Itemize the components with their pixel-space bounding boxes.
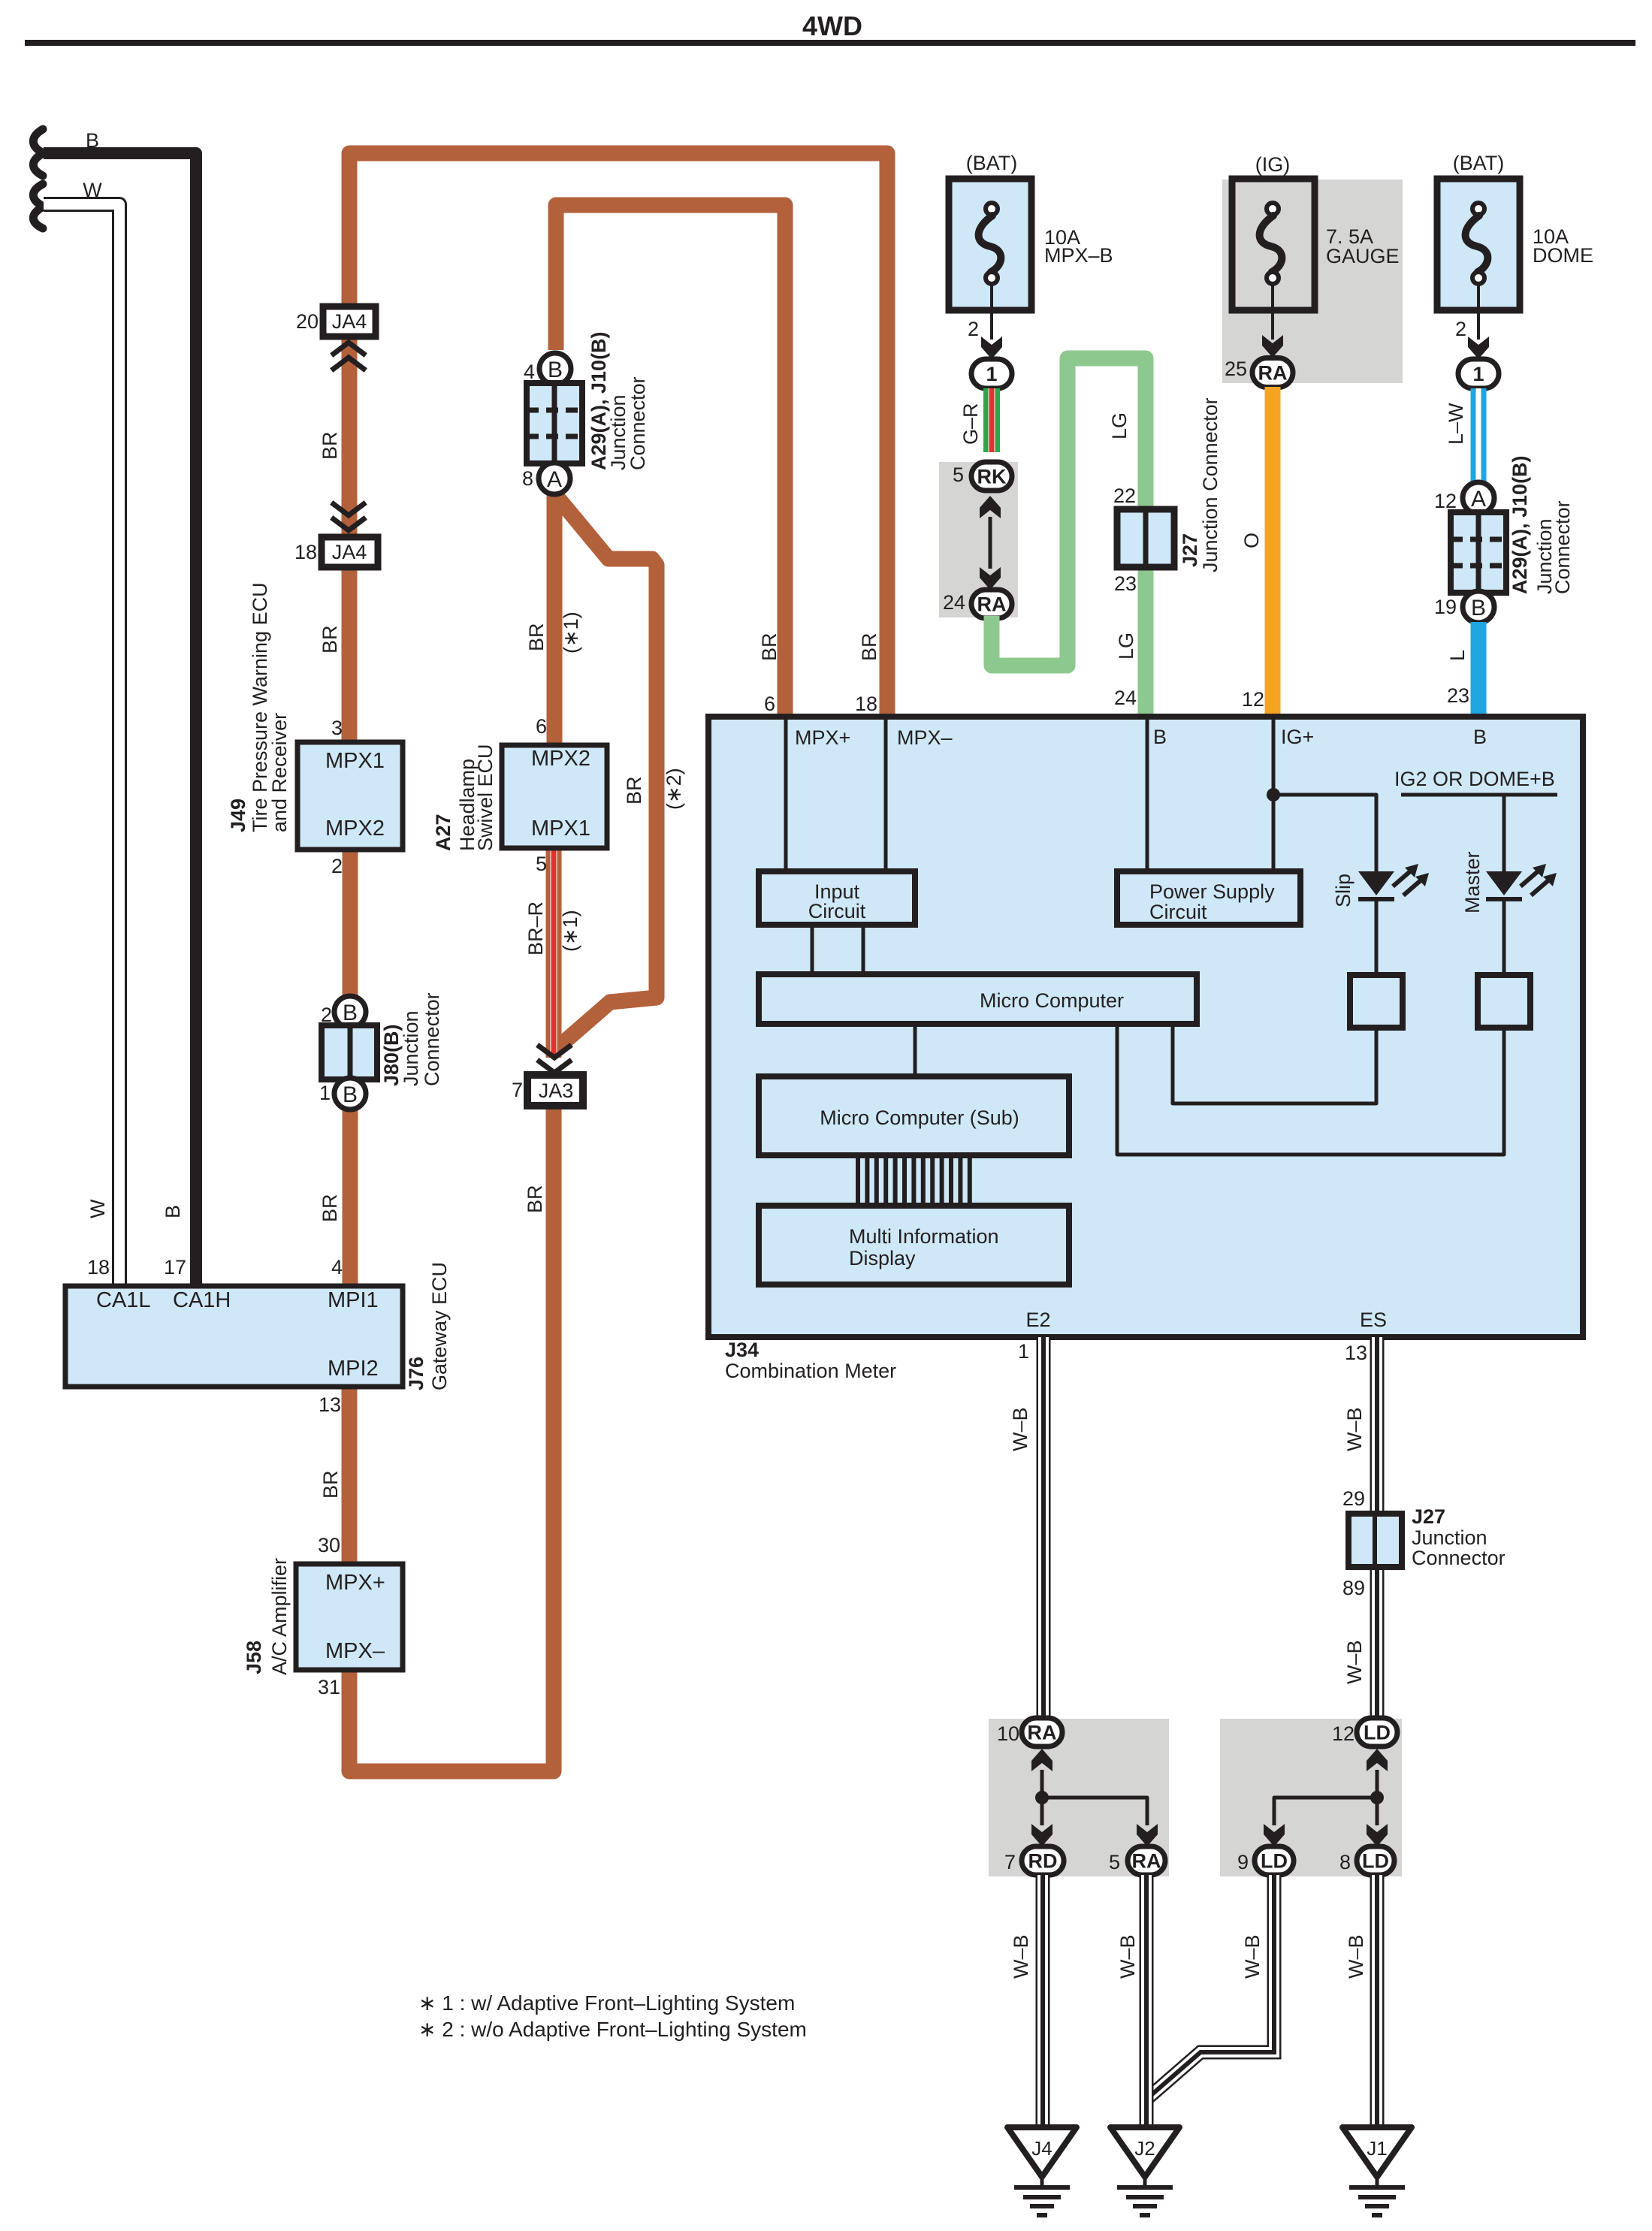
wire B (black): [44, 153, 196, 1286]
svg-text:30: 30: [318, 1534, 340, 1556]
junction connector J80(B) pin 2 circle: [334, 996, 366, 1028]
wire BR A29-A to A27 MPX2: [547, 494, 563, 745]
svg-text:8: 8: [522, 467, 533, 490]
wire bus to Master LED: [1503, 795, 1506, 873]
junction connector J10(B) pin 12 circle: [1463, 482, 1494, 514]
svg-text:MPI2: MPI2: [328, 1357, 379, 1381]
svg-text:2: 2: [331, 855, 343, 877]
fuse GAUGE box: [1232, 179, 1315, 310]
svg-text:LD: LD: [1362, 1850, 1389, 1873]
chevrons JA4 up: [334, 343, 364, 354]
svg-text:Junction: Junction: [1412, 1526, 1487, 1549]
wire internal pin6 to Input Circuit: [784, 720, 788, 873]
svg-text:Connector: Connector: [421, 992, 443, 1086]
svg-text:12: 12: [1434, 490, 1457, 512]
gray panel GAUGE fuse area: [1222, 180, 1403, 383]
fuse MPX-B symbol: [986, 203, 998, 215]
svg-text:3: 3: [331, 717, 343, 739]
svg-text:10: 10: [997, 1722, 1019, 1745]
svg-text:Micro Computer (Sub): Micro Computer (Sub): [820, 1106, 1019, 1129]
ground J1: [1342, 2127, 1412, 2177]
ribbon Sub to Display: [856, 1155, 860, 1206]
svg-text:LD: LD: [1261, 1850, 1288, 1873]
svg-text:W–B: W–B: [1010, 1934, 1032, 1979]
svg-text:J27: J27: [1412, 1505, 1445, 1528]
block Slip resistor: [1350, 975, 1403, 1028]
svg-text:MPX1: MPX1: [325, 749, 385, 773]
svg-text:(IG): (IG): [1255, 153, 1291, 176]
svg-text:25: 25: [1225, 358, 1247, 380]
junction connector J27 box (ground): [1348, 1514, 1402, 1567]
svg-text:12: 12: [1242, 688, 1264, 711]
ECU A27 Headlamp Swivel: [502, 745, 607, 848]
svg-text:24: 24: [943, 591, 965, 614]
svg-text:29: 29: [1342, 1487, 1365, 1510]
ECU J76 Gateway: [65, 1286, 403, 1387]
wire LD12 link: [1376, 1770, 1379, 1825]
ground J4: [1007, 2127, 1077, 2177]
svg-text:RK: RK: [977, 466, 1007, 488]
wire Master LED to resistor: [1503, 899, 1506, 975]
fuse DOME box: [1437, 179, 1520, 310]
svg-text:24: 24: [1114, 687, 1137, 709]
wire Micro Computer to Sub: [914, 1024, 917, 1076]
svg-text:W–B: W–B: [1343, 1640, 1366, 1684]
svg-text:∗ 2 : w/o Adaptive Front–Light: ∗ 2 : w/o Adaptive Front–Lighting System: [418, 2018, 807, 2041]
svg-text:BR: BR: [623, 776, 645, 805]
wire BR trunk (JA4 to meter MPX-): [349, 153, 887, 742]
arrow up to RK: [980, 496, 1001, 518]
wire LG loop: [992, 358, 1146, 720]
svg-text:A29(A), J10(B): A29(A), J10(B): [1509, 455, 1531, 594]
svg-text:J27: J27: [1179, 533, 1201, 567]
arrow to RA 25: [1262, 335, 1283, 358]
svg-text:JA3: JA3: [539, 1079, 574, 1102]
svg-text:W: W: [86, 1199, 109, 1218]
offpage connector 20 JA4: [323, 306, 376, 337]
svg-text:20: 20: [296, 310, 319, 333]
svg-text:Connector: Connector: [1412, 1547, 1506, 1569]
svg-text:W–B: W–B: [1343, 1407, 1366, 1451]
svg-text:(BAT): (BAT): [966, 152, 1018, 174]
svg-text:18: 18: [87, 1256, 110, 1279]
wire branch to LD9: [1274, 1798, 1377, 1825]
wire W-B RA5 to ground J2: [1140, 1875, 1154, 2129]
svg-text:IG2 OR DOME+B: IG2 OR DOME+B: [1394, 768, 1555, 790]
svg-text:31: 31: [318, 1676, 340, 1698]
gray panel RK-RA connector area: [939, 462, 1018, 617]
connector oval LD 8: [1357, 1846, 1394, 1875]
svg-text:7: 7: [512, 1079, 523, 1101]
svg-text:and Receiver: and Receiver: [268, 713, 291, 832]
arrow down to LD8: [1367, 1824, 1388, 1846]
svg-text:IG+: IG+: [1281, 726, 1314, 748]
svg-text:Master: Master: [1461, 851, 1484, 913]
wire RK-RA link: [989, 517, 992, 569]
wire O (orange): [1265, 387, 1281, 720]
svg-text:5: 5: [953, 463, 964, 486]
svg-text:B: B: [343, 1082, 358, 1107]
junction connector A29 pin 4 circle: [539, 353, 571, 385]
svg-text:(BAT): (BAT): [1453, 152, 1505, 174]
svg-text:2: 2: [1455, 318, 1466, 340]
svg-text:L: L: [1446, 650, 1469, 661]
svg-text:13: 13: [1345, 1342, 1367, 1364]
arrow down to RD7: [1031, 1824, 1053, 1846]
svg-text:6: 6: [536, 715, 547, 738]
svg-text:GAUGE: GAUGE: [1326, 245, 1400, 267]
svg-text:Connector: Connector: [1551, 500, 1574, 594]
svg-text:19: 19: [1434, 596, 1457, 618]
wire BR inner (A29 to meter MPX+): [556, 205, 785, 720]
svg-text:J2: J2: [1134, 2137, 1155, 2160]
svg-text:Circuit: Circuit: [808, 900, 866, 922]
svg-text:Gateway ECU: Gateway ECU: [428, 1262, 451, 1390]
block Micro Computer: [759, 974, 1197, 1024]
svg-text:A: A: [1471, 487, 1486, 512]
svg-text:1: 1: [1018, 1340, 1029, 1363]
gray panel LD-LD-LD connector area: [1220, 1719, 1402, 1876]
svg-text:BR: BR: [319, 1470, 342, 1499]
arrow up to LD12: [1367, 1749, 1388, 1771]
connector oval 1 (MPX-B): [971, 359, 1012, 388]
connector oval RK: [971, 462, 1012, 491]
svg-text:MPX+: MPX+: [795, 726, 850, 749]
arrow down to LD9: [1264, 1824, 1285, 1846]
svg-text:W–B: W–B: [1345, 1934, 1367, 1979]
fuse DOME symbol: [1472, 203, 1484, 215]
wire bus IG2 OR DOME+B: [1401, 793, 1557, 797]
connector oval RA 25: [1252, 358, 1293, 388]
svg-text:BR: BR: [525, 623, 548, 651]
svg-text:9: 9: [1237, 1851, 1249, 1873]
svg-text:J34: J34: [725, 1339, 759, 1361]
wire Master resistor return: [1117, 1024, 1504, 1155]
svg-text:B: B: [1473, 726, 1487, 748]
wire BR-R A27 MPX1 to JA3 (*1): [546, 848, 562, 1058]
LED Master: [1486, 871, 1522, 895]
arrow to connector 1: [981, 337, 1002, 359]
block Master resistor: [1478, 975, 1530, 1028]
block Multi Information Display: [759, 1206, 1069, 1285]
ECU J49 Tire Pressure Warning: [297, 742, 403, 850]
connector oval LD 12: [1357, 1718, 1397, 1746]
svg-text:1: 1: [319, 1082, 331, 1104]
svg-text:Swivel ECU: Swivel ECU: [474, 744, 497, 851]
svg-text:Multi Information: Multi Information: [849, 1225, 999, 1248]
connector oval RA: [971, 590, 1012, 618]
svg-text:CA1H: CA1H: [173, 1288, 231, 1312]
chevrons JA3 down: [539, 1061, 569, 1073]
connector oval 1 (DOME): [1458, 359, 1499, 388]
svg-text:J1: J1: [1367, 2137, 1387, 2160]
svg-text:MPX2: MPX2: [531, 747, 590, 771]
wire W-B LD9 elbow to J2: [1149, 1875, 1274, 2097]
svg-text:MPI1: MPI1: [328, 1288, 379, 1312]
ECU J34 Combination Meter box: [708, 717, 1583, 1337]
svg-text:∗ 1 : w/ Adaptive Front–Lighti: ∗ 1 : w/ Adaptive Front–Lighting System: [418, 1991, 795, 2015]
svg-text:(∗2): (∗2): [663, 768, 685, 810]
svg-text:BR–R: BR–R: [524, 901, 547, 955]
wire branch to RA5: [1042, 1798, 1147, 1825]
svg-text:MPX–: MPX–: [897, 726, 953, 749]
wire fuse DOME output: [1477, 284, 1480, 340]
connector oval LD 9: [1255, 1846, 1294, 1875]
wire IG+ to Slip LED: [1273, 795, 1376, 873]
wire BR J58 MPX+ to J76 MPI2: [342, 1388, 358, 1564]
wire BR J80 to J49 MPX2: [343, 850, 358, 999]
svg-text:A/C Amplifier: A/C Amplifier: [268, 1558, 291, 1675]
svg-text:J49: J49: [227, 799, 249, 832]
svg-text:BR: BR: [524, 1185, 546, 1213]
svg-text:1: 1: [1472, 363, 1484, 385]
brace wire W: [33, 184, 44, 228]
svg-text:BR: BR: [319, 625, 341, 654]
wire RA10 link: [1040, 1770, 1044, 1825]
wire fuse GAUGE output: [1271, 284, 1274, 340]
svg-text:5: 5: [1109, 1851, 1120, 1873]
svg-text:23: 23: [1447, 684, 1469, 707]
wire Slip LED to resistor: [1375, 899, 1379, 975]
svg-text:RA: RA: [1028, 1722, 1057, 1744]
connector oval RD 7: [1022, 1846, 1064, 1875]
arrow down to RA5: [1137, 1824, 1158, 1846]
svg-text:JA4: JA4: [332, 541, 367, 563]
wire Input Circuit to Micro Computer b: [862, 925, 865, 974]
svg-text:LG: LG: [1115, 632, 1137, 660]
svg-text:DOME: DOME: [1533, 244, 1593, 267]
junction connector J10(B) box: [1451, 512, 1506, 593]
offpage connector 7 JA3: [527, 1075, 583, 1106]
wire W-B E2 to RA10: [1037, 1337, 1051, 1721]
svg-text:BR: BR: [858, 632, 880, 661]
svg-text:89: 89: [1342, 1577, 1365, 1599]
svg-text:B: B: [1471, 596, 1486, 620]
offpage connector 18 JA4: [322, 537, 378, 567]
svg-text:A27: A27: [432, 814, 455, 851]
ground J2: [1110, 2127, 1179, 2177]
title rule: [25, 40, 1635, 46]
svg-text:6: 6: [764, 693, 775, 715]
block Micro Computer (Sub): [759, 1076, 1069, 1155]
junction connector A29 pin 8 circle: [539, 463, 570, 494]
svg-text:23: 23: [1114, 572, 1137, 595]
block Input Circuit: [759, 871, 915, 925]
brace wire B: [33, 129, 44, 176]
svg-text:4WD: 4WD: [802, 11, 862, 41]
svg-text:8: 8: [1339, 1851, 1351, 1873]
svg-text:BR: BR: [758, 632, 781, 661]
svg-text:B: B: [548, 358, 563, 382]
wire BR JA3 to J58 MPX-: [349, 1106, 554, 1771]
arrow down to RA: [980, 567, 1001, 590]
wire W-B LD8 to ground J1: [1370, 1875, 1385, 2129]
svg-text:12: 12: [1332, 1722, 1355, 1745]
junction connector J80(B) box: [322, 1025, 377, 1079]
svg-text:ES: ES: [1360, 1309, 1387, 1331]
wire internal IG+ line: [1272, 720, 1276, 873]
node dot left group: [1035, 1791, 1049, 1804]
wire BR bypass (*2): [557, 497, 657, 1047]
arrow up to RA10: [1031, 1749, 1053, 1771]
svg-text:O: O: [1240, 533, 1263, 548]
wire L (blue): [1471, 622, 1487, 720]
svg-text:18: 18: [294, 541, 317, 563]
node dot right group: [1370, 1791, 1384, 1804]
svg-text:G–R: G–R: [959, 403, 982, 445]
svg-text:17: 17: [164, 1256, 186, 1279]
wire L-W: [1471, 388, 1487, 485]
LED Slip: [1358, 871, 1394, 895]
svg-text:W–B: W–B: [1241, 1934, 1264, 1979]
svg-text:RA: RA: [977, 593, 1007, 616]
svg-text:B: B: [1153, 726, 1167, 748]
fuse MPX-B box: [949, 179, 1031, 310]
gray panel RA-RD-RA connector area: [989, 1719, 1169, 1876]
svg-text:A: A: [547, 467, 562, 492]
svg-text:J58: J58: [243, 1641, 265, 1674]
wire BR J76 MPI1 to J80: [343, 1107, 358, 1286]
svg-text:L–W: L–W: [1445, 403, 1467, 445]
wire W-B RD7 to ground J4: [1036, 1875, 1050, 2129]
svg-text:Micro Computer: Micro Computer: [980, 989, 1124, 1012]
node IG+ junction dot: [1267, 788, 1280, 802]
svg-text:5: 5: [536, 853, 547, 875]
connector oval RA 10: [1022, 1718, 1062, 1746]
chevrons JA4 down: [334, 519, 364, 530]
svg-text:7: 7: [1004, 1851, 1016, 1873]
svg-text:Combination Meter: Combination Meter: [725, 1360, 896, 1382]
svg-text:B: B: [162, 1205, 184, 1218]
wire internal pin24 to Power Supply: [1146, 720, 1149, 873]
svg-text:MPX+: MPX+: [325, 1571, 385, 1595]
svg-text:CA1L: CA1L: [96, 1288, 151, 1312]
svg-text:(∗1): (∗1): [560, 611, 582, 654]
svg-text:4: 4: [331, 1256, 343, 1279]
wire Slip resistor return: [1173, 1024, 1376, 1103]
svg-text:Junction Connector: Junction Connector: [1199, 397, 1222, 572]
wire W-B ES lower: [1370, 1565, 1385, 1721]
svg-text:J76: J76: [405, 1357, 427, 1390]
svg-text:BR: BR: [319, 431, 341, 460]
svg-text:RA: RA: [1132, 1850, 1161, 1873]
svg-text:MPX–B: MPX–B: [1044, 244, 1113, 267]
svg-text:MPX2: MPX2: [325, 817, 385, 841]
svg-text:RD: RD: [1028, 1850, 1058, 1873]
svg-text:Junction: Junction: [400, 1010, 422, 1086]
svg-text:Connector: Connector: [627, 376, 649, 470]
svg-text:MPX–: MPX–: [325, 1639, 385, 1663]
svg-text:W–B: W–B: [1116, 1934, 1139, 1979]
svg-text:13: 13: [319, 1393, 341, 1416]
svg-text:Display: Display: [849, 1247, 916, 1269]
svg-text:Power Supply: Power Supply: [1149, 880, 1275, 903]
wire fuse MPX-B output: [990, 284, 993, 340]
svg-text:JA4: JA4: [332, 310, 367, 333]
svg-text:1: 1: [986, 363, 997, 385]
junction connector A29 box: [527, 383, 582, 463]
svg-text:E2: E2: [1025, 1309, 1050, 1331]
junction connector J80(B) pin 1 circle: [334, 1078, 366, 1109]
wire W (white outlined): [44, 204, 119, 1286]
ECU J58 A/C Amplifier: [296, 1564, 403, 1670]
wire Input Circuit to Micro Computer a: [811, 925, 814, 974]
wire W-B ES upper: [1370, 1337, 1385, 1515]
junction connector J27 box: [1117, 509, 1174, 567]
svg-text:RA: RA: [1258, 362, 1288, 385]
wire G-R: [983, 388, 1000, 452]
svg-text:22: 22: [1113, 485, 1136, 507]
block Power Supply Circuit: [1117, 871, 1300, 925]
svg-text:W–B: W–B: [1009, 1407, 1031, 1451]
svg-text:J4: J4: [1031, 2137, 1052, 2160]
svg-text:Circuit: Circuit: [1149, 901, 1207, 923]
svg-text:LD: LD: [1364, 1722, 1391, 1744]
connector oval RA 5: [1128, 1846, 1165, 1875]
svg-text:(∗1): (∗1): [559, 910, 581, 952]
junction connector J10(B) pin 19 circle: [1463, 591, 1494, 623]
arrow to connector 1: [1468, 337, 1489, 359]
svg-text:18: 18: [855, 693, 877, 715]
svg-text:BR: BR: [319, 1194, 341, 1222]
svg-text:LG: LG: [1108, 412, 1131, 439]
svg-text:B: B: [343, 1001, 358, 1025]
svg-text:Slip: Slip: [1332, 874, 1355, 907]
svg-text:2: 2: [968, 318, 979, 340]
fuse GAUGE symbol: [1267, 203, 1279, 215]
svg-text:MPX1: MPX1: [531, 817, 590, 841]
wire internal pin18 to Input Circuit: [884, 720, 888, 873]
svg-text:4: 4: [524, 361, 535, 383]
